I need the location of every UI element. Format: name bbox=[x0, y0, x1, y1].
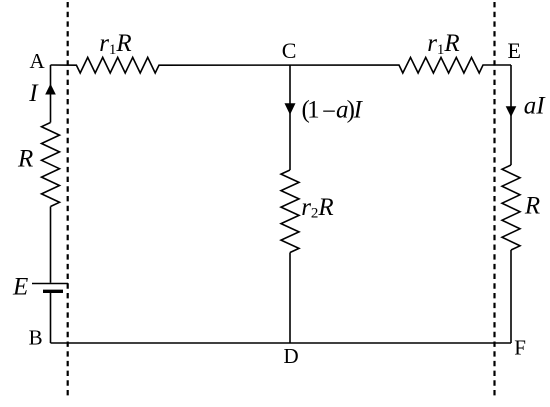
svg-text:r1R: r1R bbox=[99, 30, 132, 58]
svg-text:R: R bbox=[524, 193, 540, 220]
svg-text:r2R: r2R bbox=[301, 194, 334, 222]
svg-text:E: E bbox=[508, 38, 521, 63]
svg-text:r1R: r1R bbox=[427, 30, 460, 58]
svg-text:F: F bbox=[514, 335, 526, 359]
svg-text:D: D bbox=[284, 344, 299, 368]
svg-text:A: A bbox=[30, 49, 46, 73]
svg-text:(1 −a)I: (1 −a)I bbox=[302, 96, 364, 125]
svg-text:E: E bbox=[12, 274, 28, 301]
svg-text:aI: aI bbox=[524, 93, 547, 120]
svg-text:B: B bbox=[29, 325, 43, 349]
svg-text:I: I bbox=[28, 80, 39, 107]
svg-text:R: R bbox=[17, 146, 33, 173]
svg-text:C: C bbox=[282, 38, 297, 63]
